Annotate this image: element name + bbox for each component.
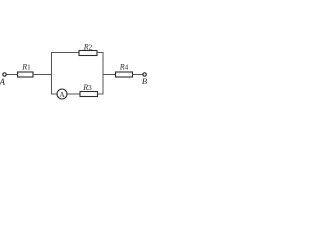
left rail wire <box>51 52 53 95</box>
top rail wire to R2 <box>51 52 79 54</box>
wire A to R1 <box>6 74 17 76</box>
ammeter U1 <box>57 89 67 99</box>
wire ammeter to R3 <box>67 93 80 95</box>
resistor R3 <box>80 92 98 97</box>
node A terminal <box>3 73 6 76</box>
right rail wire <box>102 52 104 95</box>
wire R1 to left junction <box>33 74 52 76</box>
wire R4 to node B <box>133 74 143 76</box>
svg-text:R3: R3 <box>82 83 92 92</box>
svg-text:R2: R2 <box>83 42 93 51</box>
svg-text:A: A <box>0 77 5 87</box>
wire R2 to right rail <box>97 52 104 54</box>
svg-text:B: B <box>142 76 147 86</box>
resistor R1 <box>18 72 34 77</box>
resistor R2 <box>79 51 97 56</box>
svg-text:R1: R1 <box>21 63 31 72</box>
wire right junction to R4 <box>103 74 116 76</box>
node B terminal <box>143 73 146 76</box>
svg-text:A: A <box>59 90 65 99</box>
resistor R4 <box>116 72 133 77</box>
wire R3 to right rail <box>98 93 104 95</box>
bottom rail wire to ammeter <box>52 93 58 95</box>
svg-text:R4: R4 <box>119 63 129 72</box>
